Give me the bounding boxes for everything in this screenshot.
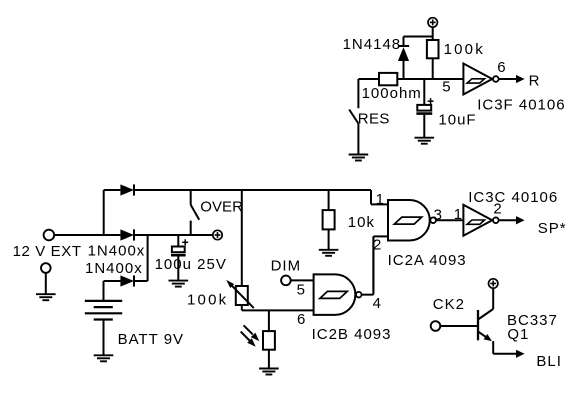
svg-text:IC3C 40106: IC3C 40106 <box>468 189 558 206</box>
svg-text:100u 25V: 100u 25V <box>155 256 227 273</box>
svg-text:Q1: Q1 <box>507 326 529 343</box>
svg-text:4: 4 <box>373 295 382 312</box>
svg-text:OVER: OVER <box>200 199 243 216</box>
svg-text:100k: 100k <box>444 41 485 58</box>
svg-text:6: 6 <box>497 59 506 76</box>
svg-text:10k: 10k <box>348 214 375 231</box>
svg-text:6: 6 <box>297 311 306 328</box>
svg-text:1: 1 <box>376 191 385 208</box>
svg-text:IC2A 4093: IC2A 4093 <box>388 252 467 269</box>
svg-text:1N400x: 1N400x <box>85 260 143 277</box>
svg-text:3: 3 <box>434 207 443 224</box>
svg-text:RES: RES <box>358 110 390 127</box>
svg-text:BLI: BLI <box>536 353 562 370</box>
svg-text:SP*: SP* <box>538 220 567 237</box>
svg-text:5: 5 <box>442 78 451 95</box>
svg-text:1N4148: 1N4148 <box>343 36 402 53</box>
svg-text:CK2: CK2 <box>433 296 465 313</box>
svg-text:12 V EXT: 12 V EXT <box>13 243 82 260</box>
svg-text:IC2B 4093: IC2B 4093 <box>312 326 392 343</box>
svg-text:2: 2 <box>373 237 382 254</box>
svg-text:BATT 9V: BATT 9V <box>118 331 184 348</box>
svg-text:IC3F 40106: IC3F 40106 <box>477 97 565 114</box>
svg-text:R: R <box>529 73 541 90</box>
svg-text:DIM: DIM <box>271 257 302 274</box>
svg-text:5: 5 <box>297 282 306 299</box>
svg-text:1N400x: 1N400x <box>88 243 146 260</box>
svg-text:100k: 100k <box>187 292 228 309</box>
svg-text:10uF: 10uF <box>438 112 476 129</box>
svg-text:100ohm: 100ohm <box>362 85 422 102</box>
svg-text:1: 1 <box>454 206 463 223</box>
